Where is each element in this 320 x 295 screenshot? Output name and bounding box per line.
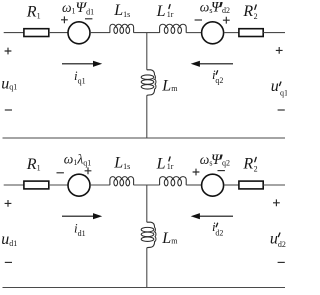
wire: magnetizing branch lower (d-axis): [146, 248, 148, 288]
svg-text:ud1: ud1: [1, 231, 17, 248]
prime of u_d2': [278, 233, 280, 237]
prime of L1r' (d): [169, 157, 170, 161]
prime of R2' (d): [255, 157, 256, 161]
resistor R2' (q-axis): [239, 29, 263, 37]
terminal + left: [5, 48, 12, 55]
wire: source to L1s (q-axis): [90, 32, 110, 34]
current arrow left (q-axis): [62, 63, 94, 65]
terminal - left: [5, 261, 12, 263]
wire: bottom rail (d-axis): [3, 287, 286, 289]
terminal - right: [278, 261, 285, 263]
terminal + right: [273, 199, 280, 206]
svg-text:L1r: L1r: [156, 3, 174, 20]
wire: bottom rail (q-axis): [3, 137, 286, 139]
prime of i_q2': [216, 71, 217, 75]
wire: right terminal stub (d-axis): [263, 184, 285, 186]
wire: L1r to source 2 (d-axis): [186, 184, 201, 186]
svg-text:L1s: L1s: [113, 154, 130, 171]
wire: R1 to source (q-axis): [49, 32, 68, 34]
voltage source (left) (q-axis): [68, 22, 90, 44]
voltage source (left) (d-axis): [68, 174, 90, 196]
current arrow right (q-axis): [200, 63, 234, 65]
resistor R1 (q-axis): [24, 29, 49, 37]
wire: left terminal stub (q-axis): [4, 32, 24, 34]
voltage source (right) (q-axis): [202, 22, 224, 44]
prime of u_q1': [280, 82, 281, 86]
prime of i_d2': [216, 223, 217, 227]
svg-text:ω1Ψd1: ω1Ψd1: [62, 0, 94, 16]
svg-text:Lm: Lm: [161, 77, 178, 94]
inductor L1r' (d-axis): [160, 177, 187, 186]
inductor L1r' (q-axis): [160, 24, 187, 33]
terminal + left: [5, 200, 12, 207]
resistor R1 (d-axis): [24, 181, 49, 189]
terminal - right: [278, 109, 285, 111]
wire: left terminal stub (d-axis): [4, 184, 24, 186]
svg-text:R1: R1: [26, 4, 41, 21]
terminal - left: [5, 109, 12, 111]
wire: R1 to source (d-axis): [49, 184, 68, 186]
inductor L1s (q-axis): [110, 24, 134, 33]
prime of L1r': [169, 5, 170, 9]
wire: L1s to junction to L1r (d-axis): [134, 184, 160, 186]
wire: source to L1s (d-axis): [90, 184, 110, 186]
svg-text:R1: R1: [26, 156, 41, 173]
resistor R2' (d-axis): [239, 181, 263, 189]
svg-text:uq1: uq1: [1, 76, 17, 93]
wire: source 2 to R2 (d-axis): [224, 184, 239, 186]
svg-text:id1: id1: [74, 221, 86, 238]
wire: right terminal stub (q-axis): [263, 32, 285, 34]
terminal + right: [276, 47, 283, 54]
wire: magnetizing branch lower (q-axis): [146, 96, 148, 139]
voltage source (right) (d-axis): [202, 174, 224, 196]
polarity + right of q source 2: [223, 17, 230, 24]
polarity + left of d source 2: [193, 169, 200, 176]
svg-text:uq1: uq1: [271, 78, 287, 97]
svg-text:Lm: Lm: [161, 230, 178, 247]
polarity - left of d source 1: [57, 172, 64, 174]
svg-text:iq1: iq1: [74, 68, 86, 85]
svg-text:ωsΨd2: ωsΨd2: [200, 0, 230, 16]
svg-text:iq2: iq2: [212, 67, 223, 85]
svg-text:L1r: L1r: [156, 155, 174, 172]
svg-text:L1s: L1s: [113, 2, 130, 19]
wire: L1r to source 2 (q-axis): [186, 32, 201, 34]
prime of Psi_d2': [221, 3, 222, 7]
svg-text:ω1λq1: ω1λq1: [64, 152, 91, 168]
inductor Lm (q-axis): [141, 75, 154, 80]
svg-text:id2: id2: [212, 219, 223, 237]
inductor Lm (d-axis): [141, 227, 154, 232]
polarity + right of d source 1: [85, 167, 92, 174]
wire: magnetizing branch upper (d-axis): [146, 185, 148, 222]
prime of R2': [255, 5, 256, 9]
prime of Psi_q2': [221, 155, 222, 159]
wire: magnetizing branch upper (q-axis): [146, 33, 148, 70]
polarity - left of q source 2: [195, 19, 202, 21]
wire: source 2 to R2 (q-axis): [224, 32, 239, 34]
current arrow right (d-axis): [200, 215, 234, 217]
polarity - right of q source 1: [85, 18, 92, 20]
polarity + left of q source 1: [61, 16, 68, 23]
wire: L1s to junction to L1r (q-axis): [134, 32, 160, 34]
current arrow left (d-axis): [62, 215, 94, 217]
svg-text:ωsΨq2: ωsΨq2: [200, 152, 230, 168]
svg-text:ud2: ud2: [270, 230, 286, 249]
inductor L1s (d-axis): [110, 177, 134, 186]
polarity - right of d source 2: [218, 170, 225, 172]
